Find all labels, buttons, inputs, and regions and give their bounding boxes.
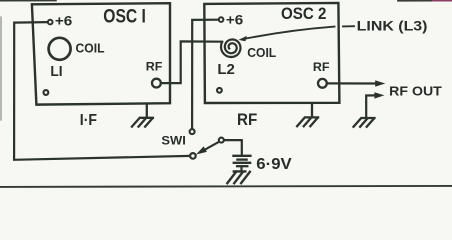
- block OSC2 box: [204, 3, 339, 103]
- arrowhead leader at coil: [239, 36, 247, 41]
- ground below battery: [227, 171, 250, 183]
- switch SW1 pole contact: [190, 153, 196, 159]
- svg-text:LI: LI: [50, 64, 62, 80]
- svg-text:COIL: COIL: [76, 41, 105, 55]
- svg-text:OSC I: OSC I: [103, 7, 146, 28]
- arrowhead switch lever tip: [196, 146, 207, 154]
- border frame bottom edge: [0, 186, 452, 187]
- ground RF OUT return: [354, 118, 375, 127]
- terminal O OSC2: [217, 88, 222, 93]
- coil L2 spiral: [221, 39, 241, 57]
- wire RF OUT: [327, 82, 376, 84]
- wire +6 OSC2 down to switch: [192, 20, 218, 129]
- terminal O OSC1: [44, 90, 49, 95]
- switch SW1 lever: [200, 142, 218, 152]
- border frame top-left segment: [0, 0, 56, 2]
- coil L1: [49, 38, 71, 60]
- wire OSC1 RF to L2 coil: [161, 41, 222, 83]
- svg-text:RF: RF: [146, 59, 163, 73]
- svg-text:RF OUT: RF OUT: [389, 84, 442, 99]
- svg-text:SWI: SWI: [161, 134, 185, 147]
- ground below OSC2: [297, 103, 318, 126]
- terminal +6 OSC1: [48, 20, 53, 25]
- svg-text:LINK (L3): LINK (L3): [357, 18, 428, 33]
- svg-text:I·F: I·F: [80, 112, 97, 129]
- wire RF OUT ground lead: [366, 95, 375, 117]
- battery B1 plates: [234, 155, 251, 157]
- terminal RF OSC2: [318, 79, 327, 88]
- battery bottom stub: [240, 167, 242, 171]
- terminal RF OSC1: [152, 79, 161, 88]
- switch SW1 battery contact: [219, 138, 224, 143]
- switch SW1 top contact: [190, 129, 195, 134]
- arrowhead RF OUT ground lead: [374, 92, 384, 98]
- border frame left edge: [0, 17, 2, 120]
- svg-text:OSC 2: OSC 2: [281, 4, 326, 23]
- ground below OSC1: [132, 104, 153, 126]
- arrowhead RF OUT: [375, 80, 385, 86]
- terminal +6 OSC2: [219, 17, 224, 22]
- svg-text:RF: RF: [313, 60, 330, 74]
- svg-text:RF: RF: [237, 110, 257, 129]
- svg-text:COIL: COIL: [247, 45, 276, 60]
- wire switch to battery: [224, 140, 241, 155]
- border frame top-right segment: [398, 0, 433, 2]
- svg-text:+6: +6: [226, 13, 244, 28]
- leader line to LINK label: [243, 27, 335, 40]
- svg-text:+6: +6: [55, 13, 73, 28]
- wire +6 OSC1 to bottom rail: [14, 22, 190, 160]
- svg-text:6·9V: 6·9V: [256, 156, 292, 173]
- block OSC1 box: [32, 3, 170, 104]
- svg-text:L2: L2: [217, 61, 235, 78]
